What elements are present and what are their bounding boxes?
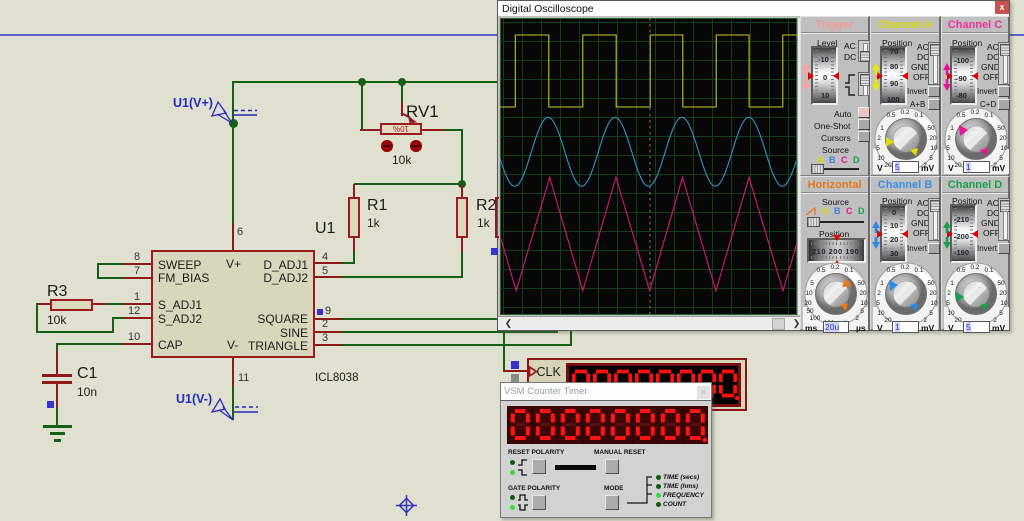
pin label D_ADJ2 — [307, 271, 309, 285]
scrollbar right arrow — [791, 318, 802, 329]
control panel background — [803, 16, 1009, 330]
horizontal source slider — [809, 221, 864, 223]
channel D gauge — [950, 204, 977, 263]
hidden resistor at scope edge — [495, 197, 499, 238]
VSM label MANUAL RESET — [594, 449, 646, 456]
trigger coupling switch — [858, 40, 870, 62]
RV1 adjust button right — [410, 140, 422, 152]
channel B position label — [882, 196, 912, 206]
channel B invert button — [928, 243, 940, 254]
net marker blue square CLK — [511, 361, 519, 369]
label R2 — [476, 197, 496, 215]
trigger one-shot label — [814, 121, 850, 131]
voltage marker blue square C1 — [47, 401, 54, 408]
capacitor C1 top lead — [56, 351, 58, 375]
counter device body — [527, 358, 747, 411]
wire R2 column vertical — [461, 129, 463, 185]
scope title bar — [498, 1, 1009, 16]
pin number 6 — [237, 226, 243, 238]
channel A title — [871, 19, 939, 31]
channel B blue up-down arrows — [871, 221, 881, 249]
label C1 value 10n — [77, 385, 97, 399]
wire pin4 green corner — [353, 251, 355, 264]
probe U1(V-) — [173, 390, 268, 424]
wire RV1 left terminal vertical — [361, 81, 363, 129]
scrollbar thumb — [772, 318, 785, 330]
VSM counter timer popup window — [0, 0, 1024, 2]
wire R3 left lead — [36, 303, 50, 305]
schematic layer — [0, 0, 1024, 1]
pin number 8 — [134, 251, 140, 263]
pin stub 5 — [315, 276, 341, 278]
horizontal section — [800, 176, 870, 330]
trigger gauge arrows — [808, 72, 814, 80]
wire pin6 red stub — [232, 223, 234, 250]
channel C knob — [942, 104, 1012, 174]
pin number 12 — [128, 305, 140, 317]
VSM reset polarity LED lit — [510, 470, 515, 475]
trigger AC DC labels — [844, 41, 856, 51]
channel D invert button — [998, 243, 1010, 254]
VSM gate polarity pulse glyphs — [517, 493, 530, 513]
pin stub 3 + triangle wire — [315, 344, 342, 346]
pin stub 2 + sine wire — [315, 331, 342, 333]
pin stub 4 — [315, 262, 342, 264]
node junction dot rail-RV1 wiper — [398, 78, 406, 86]
wire RV1 wiper red — [401, 102, 403, 116]
potentiometer RV1 body — [380, 123, 422, 135]
channel A coupling labels — [917, 42, 929, 52]
pin label FM_BIAS — [158, 271, 209, 285]
VSM window frame — [500, 382, 712, 518]
trigger source letters — [817, 155, 824, 165]
VSM mode selector lines — [620, 474, 656, 506]
horizontal value row — [805, 323, 817, 333]
horizontal knob — [801, 259, 871, 329]
channel A invert button — [928, 86, 940, 97]
channel D green up-down arrows — [942, 221, 952, 249]
channel C position label — [952, 38, 982, 48]
channel A A+B button — [928, 99, 940, 110]
scope title text — [502, 3, 594, 15]
channel C C+D label — [980, 100, 996, 109]
wire pin5 green vertical from R2 — [461, 252, 463, 278]
channel D coupling switch — [998, 198, 1010, 241]
VSM reset polarity LED dark — [510, 460, 515, 465]
pin label S_ADJ2 — [158, 312, 202, 326]
pin label V+ — [226, 257, 241, 271]
node probe junction dot U1(V+) — [229, 119, 238, 128]
channel B title — [871, 179, 939, 191]
resistor R1 body — [348, 197, 360, 238]
channel C coupling labels — [987, 42, 999, 52]
pin label CAP — [158, 338, 183, 352]
grid — [500, 18, 797, 315]
trigger pink up-down arrows — [801, 63, 811, 91]
label ICL8038 — [315, 372, 358, 384]
channel C pink up-down arrows — [942, 63, 952, 91]
pin stub 7 — [124, 277, 151, 279]
channel B gauge — [880, 204, 907, 263]
scope window frame — [497, 0, 1010, 331]
channel C invert button — [998, 86, 1010, 97]
scope screen — [500, 18, 797, 315]
node junction dot R1-R2 rail — [458, 180, 466, 188]
wire R3 left down loop — [36, 303, 38, 333]
trigger source slider — [813, 168, 859, 170]
VSM black bar — [555, 465, 596, 470]
potentiometer RV1 wiper arrow — [396, 110, 424, 128]
VSM title text — [504, 386, 587, 397]
channel B sine wave — [500, 117, 796, 186]
trigger edge switch — [858, 72, 870, 96]
counter device 7-seg digits — [571, 367, 739, 403]
ground symbol — [43, 425, 72, 428]
counter device display frame — [566, 363, 741, 407]
VSM title bar — [501, 383, 711, 400]
label R1 — [367, 197, 387, 215]
channel A position label — [882, 38, 912, 48]
pin number 9 — [325, 305, 331, 317]
VSM gate polarity LED dark — [510, 495, 515, 500]
trigger source label — [822, 145, 849, 155]
trigger level gauge — [811, 46, 838, 105]
channel C invert label — [977, 87, 997, 96]
trigger level label — [817, 38, 837, 48]
channel B coupling switch — [928, 198, 940, 241]
channel D position label — [952, 196, 982, 206]
VSM reset polarity button — [532, 459, 546, 474]
pin number 4 — [322, 251, 328, 263]
VSM manual reset button — [605, 459, 619, 474]
resistor R1 leads — [353, 184, 355, 198]
svg-text:U1(V+): U1(V+) — [173, 96, 213, 110]
pin stub 1 + wire to R3 — [124, 303, 151, 305]
VSM display digits — [508, 406, 707, 444]
pin number 11 — [238, 372, 249, 384]
trigger title — [801, 19, 868, 31]
VSM mode button — [605, 495, 619, 510]
channel C title — [942, 19, 1008, 31]
horizontal gauge arrows — [833, 235, 841, 241]
svg-text:U1(V-): U1(V-) — [176, 392, 212, 406]
pin number 1 — [134, 291, 140, 303]
wire square down to CLK — [503, 331, 505, 372]
trigger auto button (lit) — [858, 107, 870, 118]
VSM label MODE — [604, 485, 624, 492]
pin number 7 — [134, 265, 140, 277]
channel C gauge arrows — [947, 72, 953, 80]
label RV1 — [406, 102, 439, 122]
trigger edge glyphs — [843, 73, 857, 97]
VSM mode LED FREQUENCY lit — [656, 493, 661, 498]
wire pin5 green horizontal — [341, 276, 463, 278]
wire loop pins 8-7 — [97, 263, 124, 265]
channel D gauge arrows — [947, 230, 953, 238]
scope vertical scrollbar strip — [797, 18, 803, 315]
channel C triangle wave — [500, 177, 797, 290]
horizontal ramp icon — [805, 206, 821, 217]
resistor R2 body — [456, 197, 468, 238]
horizontal title — [801, 179, 868, 191]
VSM label GATE POLARITY — [508, 485, 560, 492]
horizontal gauge — [807, 238, 866, 263]
pin stub 8 — [124, 263, 151, 265]
VSM mode LED TIME(secs) — [656, 475, 661, 480]
channel C C+D button — [998, 99, 1010, 110]
oscilloscope window — [0, 0, 1024, 1]
net marker blue square near R2 — [491, 248, 498, 255]
horizontal source label — [822, 197, 849, 207]
channel A yellow up-down arrows — [871, 63, 881, 91]
channel B knob — [871, 259, 941, 329]
origin crosshair marker — [396, 495, 421, 520]
pin label V- — [227, 338, 238, 352]
trigger cursors button — [858, 131, 870, 142]
wire RV1 wiper vertical green — [401, 81, 403, 102]
channel C section — [941, 16, 1010, 176]
shared svg defs for knobs — [0, 0, 1, 1]
pin stub 9 + square wire — [315, 318, 342, 320]
pin number 5 — [322, 265, 328, 277]
wire pin6 vertical green — [232, 81, 234, 223]
counter device CLK label — [537, 365, 561, 379]
channel D coupling labels — [987, 198, 999, 208]
label C1 — [77, 365, 97, 383]
net marker blue square pin9 — [317, 309, 323, 315]
trigger one-shot button — [858, 119, 870, 130]
wire RV1 right lead red — [422, 129, 444, 131]
trigger cursor dashed line — [649, 18, 651, 315]
channel D knob — [942, 259, 1012, 329]
pin label TRIANGLE — [307, 339, 309, 353]
pin label D_ADJ1 — [307, 258, 309, 272]
trigger cursors label — [821, 133, 851, 143]
channel D section — [941, 176, 1010, 330]
pin stub 12 — [112, 317, 124, 319]
VSM mode LED COUNT — [656, 502, 661, 507]
pin number 2 — [322, 318, 328, 330]
scrollbar left arrow — [503, 318, 514, 329]
resistor R3 body — [50, 299, 93, 311]
wire R1-R2 horizontal — [354, 183, 462, 185]
channel C gauge — [950, 46, 977, 105]
blue sheet border line — [0, 34, 1024, 36]
label R1 value — [367, 216, 380, 230]
label U1 — [315, 220, 335, 238]
channel A value row — [877, 163, 883, 173]
pin label SWEEP — [158, 258, 201, 272]
channel B value row — [877, 323, 883, 333]
resistor R2 leads — [461, 185, 463, 198]
channel A invert label — [907, 87, 927, 96]
probe U1(V+) — [170, 94, 265, 128]
horizontal position label — [819, 229, 849, 239]
counter device CLK input arrow — [527, 365, 541, 379]
capacitor C1 plates — [42, 374, 72, 377]
wire RV1 right green — [444, 129, 463, 131]
pin label SQUARE — [307, 312, 309, 326]
chip U1 ICL8038 body — [151, 250, 315, 358]
channel A gauge arrows — [877, 72, 883, 80]
label R3 value 10k — [47, 313, 66, 327]
counter timer device on schematic — [0, 0, 1024, 1]
pin label S_ADJ1 — [158, 298, 202, 312]
pin label SINE — [307, 326, 309, 340]
channel A knob — [871, 104, 941, 174]
channel A A+B label — [910, 100, 925, 109]
channel B section — [870, 176, 941, 330]
wire RV1 left lead red — [360, 129, 381, 131]
VSM gate polarity LED lit — [510, 505, 515, 510]
channel B gauge arrows — [877, 230, 883, 238]
label R3 — [47, 283, 67, 301]
trigger section — [800, 16, 870, 176]
pin stub 11 — [232, 358, 234, 386]
channel B coupling labels — [917, 198, 929, 208]
channel B invert label — [907, 244, 927, 253]
VSM display — [507, 406, 708, 444]
pin stub 10 + wire — [123, 343, 151, 345]
channel D title — [942, 179, 1008, 191]
label R2 value — [477, 216, 490, 230]
channel A section — [870, 16, 941, 176]
channel A square wave — [500, 35, 797, 107]
wire triangle up to scope — [570, 331, 572, 346]
pin number 3 — [322, 332, 328, 344]
VSM gate polarity button — [532, 495, 546, 510]
scope close button — [995, 1, 1009, 14]
channel C coupling switch — [998, 42, 1010, 85]
trigger auto label — [834, 109, 852, 119]
channel A gauge — [880, 46, 907, 105]
channel C value row — [948, 163, 954, 173]
wire top rail — [233, 81, 499, 83]
VSM reset polarity edge glyphs — [517, 458, 529, 478]
gray marker square CLK — [511, 374, 519, 382]
scope horizontal scrollbar — [498, 316, 803, 330]
channel D value row — [948, 323, 954, 333]
VSM label RESET POLARITY — [508, 449, 564, 456]
pin number 10 — [128, 331, 140, 343]
label RV1 value 10k — [392, 153, 411, 167]
VSM mode LED TIME(hms) — [656, 484, 661, 489]
node junction dot rail-RV1 left — [358, 78, 366, 86]
horizontal source letters — [822, 206, 829, 216]
VSM close button — [697, 386, 710, 399]
channel D invert label — [977, 244, 997, 253]
RV1 internal value text (rotated) — [386, 124, 416, 133]
RV1 adjust button left — [381, 140, 393, 152]
capacitor C1 bottom lead — [56, 383, 58, 407]
channel A coupling switch — [928, 42, 940, 85]
